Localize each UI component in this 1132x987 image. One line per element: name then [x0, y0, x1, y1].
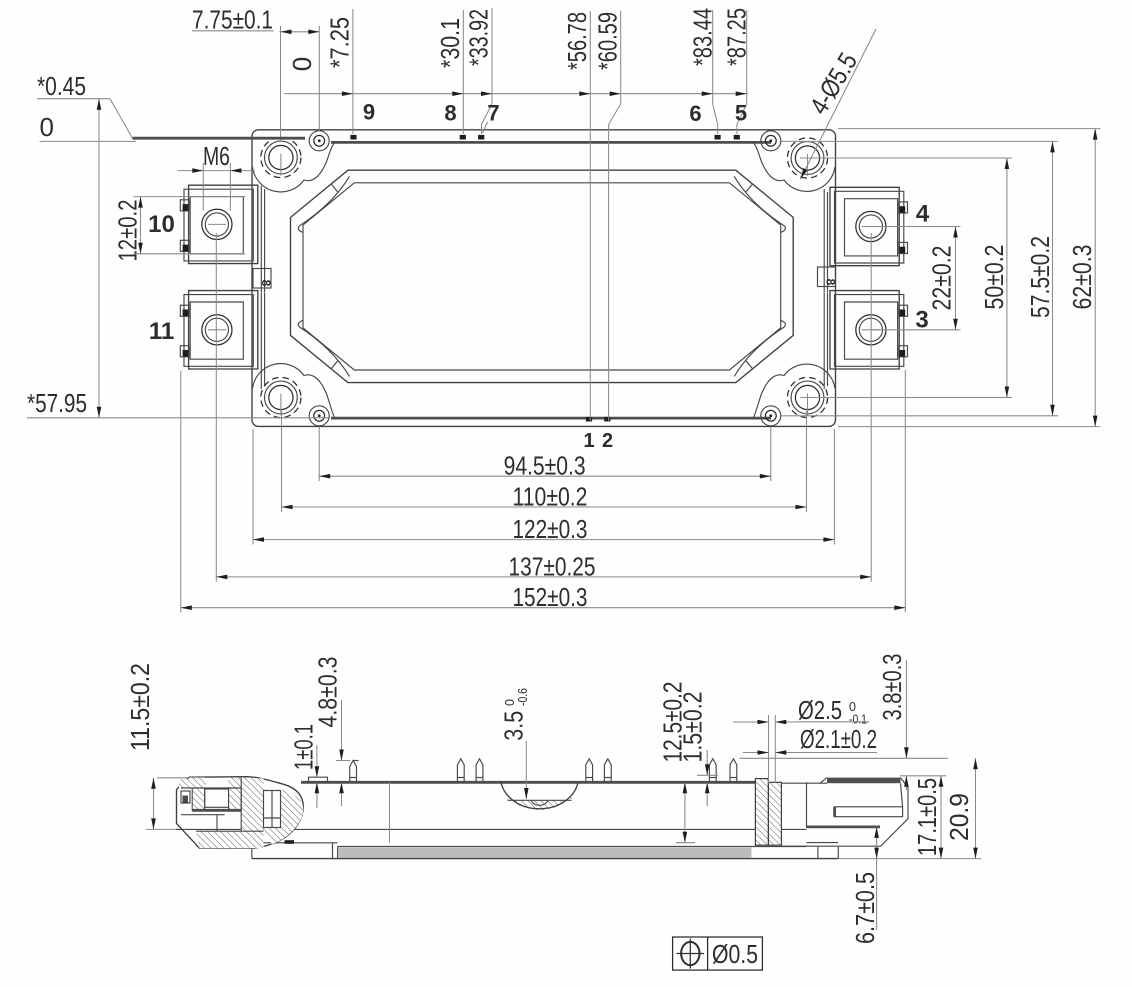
labels 4 3 (right terminals) — [915, 201, 930, 334]
side view: gate notch with hatch — [501, 782, 578, 810]
side view: connector wall with hatch — [755, 779, 781, 846]
svg-text:62±0.3: 62±0.3 — [1067, 245, 1097, 310]
dimension Ø2.5 0/-0.1 (pin diameter) — [733, 695, 869, 783]
side view: top surface line — [301, 781, 762, 784]
lid octagon inner contour — [303, 183, 781, 370]
svg-text:50±0.2: 50±0.2 — [979, 245, 1009, 310]
svg-text:1.5±0.2: 1.5±0.2 — [678, 692, 708, 763]
dimension 152±0.3 — [181, 582, 906, 612]
dimension 17.1±0.5 (housing height) — [900, 776, 946, 859]
svg-text:1±0.1: 1±0.1 — [289, 724, 319, 770]
svg-text:1: 1 — [583, 430, 594, 452]
svg-text:*0.45: *0.45 — [37, 71, 86, 101]
dimension 6.7±0.5 (ledge height) — [850, 827, 880, 944]
extension lines for bottom dimensions — [181, 233, 906, 613]
mounting hole bottom-left (4-Ø5.5) — [261, 377, 301, 417]
pin position ticks on bottom edge (pins 1,2) — [586, 417, 611, 422]
svg-text:8: 8 — [824, 279, 838, 286]
dimension 110±0.2 — [282, 482, 807, 512]
side view: control pin (4.8±0.3) — [350, 761, 357, 783]
svg-text:17.1±0.5: 17.1±0.5 — [912, 778, 942, 856]
svg-text:-0.6: -0.6 — [516, 688, 530, 706]
leader 4-Ø5.5 (mounting holes) — [801, 29, 877, 179]
lid octagon outer contour — [291, 170, 794, 382]
svg-text:Ø2.1±0.2: Ø2.1±0.2 — [800, 724, 877, 754]
ordinate dimension line across top with arrows — [284, 91, 748, 96]
side view: internal vertical line — [389, 782, 391, 842]
dimension 50±0.2 (mounting hole pitch) — [800, 158, 1012, 398]
pin number labels 9 8 7 6 5 — [363, 100, 747, 134]
dimension 122±0.3 — [253, 514, 834, 544]
labels 10 11 (left terminals) — [148, 211, 175, 345]
side view: pin pair B — [586, 759, 593, 783]
svg-text:*57.95: *57.95 — [27, 388, 87, 418]
right index tab — [818, 267, 838, 287]
rivet pin top-left — [309, 131, 329, 151]
left vertical dimension line (0.45 to 57.95) — [97, 99, 102, 418]
corner boss arcs around mounting holes — [253, 143, 836, 418]
ordinate leader *60.59 (pin 2, jogged) — [592, 11, 622, 421]
dimension 22±0.2 (terminal pitch) — [872, 227, 961, 330]
ordinate leader *7.25 (pin 9) — [325, 9, 355, 134]
svg-text:11: 11 — [149, 318, 174, 345]
dimension 57.5±0.2 (rivet pitch) — [781, 141, 1058, 415]
top view: module body outline — [252, 130, 836, 427]
svg-text:4.8±0.3: 4.8±0.3 — [313, 657, 343, 728]
svg-text:M6: M6 — [203, 141, 230, 171]
terminal block 3 (screw M6) — [830, 291, 908, 369]
ordinate leader *87.25 (pin 5, jogged) — [721, 8, 751, 134]
dimension M6 (terminal thread) — [178, 141, 255, 211]
labels 1 2 (bottom pins) — [583, 430, 613, 452]
datum 0 label (rotated) and rivet centerline — [287, 26, 319, 131]
left index tab — [253, 269, 273, 289]
svg-text:4: 4 — [916, 201, 930, 228]
svg-text:6.7±0.5: 6.7±0.5 — [850, 872, 880, 944]
position tolerance feature control frame Ø0.5 — [673, 937, 763, 970]
svg-text:8: 8 — [444, 101, 456, 126]
side view: pin pair C — [709, 759, 716, 783]
side view: module bottom line — [176, 828, 807, 830]
pin position ticks on top edge (pins 9,8,7,6,5) — [350, 135, 740, 140]
side view: pin bump (1±0.1) — [309, 777, 328, 782]
side view: left clamp assembly (section) — [177, 777, 304, 849]
ordinate leader *56.78 (pin 1) — [562, 11, 592, 421]
svg-text:0: 0 — [287, 57, 317, 71]
dimension 137±0.25 — [216, 551, 871, 581]
dimension Ø2.1±0.2 (pin diameter) — [743, 724, 877, 755]
svg-text:2: 2 — [602, 430, 613, 452]
svg-text:*7.25: *7.25 — [325, 17, 355, 68]
dimension *0.45 with leader and datum 0 line — [37, 71, 305, 142]
svg-text:*30.1: *30.1 — [435, 18, 465, 68]
mounting hole bottom-right (4-Ø5.5) — [787, 377, 827, 417]
svg-text:Ø0.5: Ø0.5 — [712, 939, 758, 969]
svg-text:0: 0 — [503, 699, 517, 706]
extension line: hole centerline — [280, 26, 282, 140]
svg-text:0: 0 — [40, 112, 54, 142]
dimension 7.75±0.1 (hole center to rivet datum) — [192, 5, 319, 35]
svg-text:5: 5 — [735, 101, 747, 126]
dimension 20.9 (total height) — [838, 758, 981, 858]
rivet pin bottom-right — [761, 406, 781, 426]
terminal block 10 (screw M6) — [180, 185, 257, 263]
svg-text:*56.78: *56.78 — [562, 12, 592, 70]
rivet pin top-right — [761, 131, 781, 151]
svg-text:8: 8 — [259, 280, 273, 287]
side view: baseplate — [252, 840, 839, 858]
svg-text:7.75±0.1: 7.75±0.1 — [192, 5, 273, 35]
dimension 1.5±0.2 (pin shoulder) — [678, 692, 719, 807]
svg-text:22±0.2: 22±0.2 — [927, 246, 957, 311]
side view: pin pair A — [457, 759, 464, 783]
svg-text:10: 10 — [148, 211, 175, 238]
dimension 3.5 0/-0.6 (notch depth) — [499, 688, 531, 799]
svg-text:11.5±0.2: 11.5±0.2 — [125, 663, 155, 751]
dimension 94.5±0.3 — [319, 450, 771, 480]
svg-text:*60.59: *60.59 — [592, 12, 622, 70]
svg-text:3.5: 3.5 — [499, 711, 529, 741]
rivet pin bottom-left — [309, 406, 329, 426]
dimension 11.5±0.2 (module height) — [125, 663, 190, 829]
side view: right connector housing — [781, 778, 908, 859]
terminal block 4 (screw M6) — [830, 187, 908, 265]
svg-text:57.5±0.2: 57.5±0.2 — [1025, 236, 1055, 318]
svg-text:9: 9 — [363, 100, 375, 125]
svg-text:Ø2.5: Ø2.5 — [798, 695, 842, 725]
dimension 3.8±0.3 (pin above housing) — [739, 654, 948, 791]
dimension 12±0.2 (block recess height) — [113, 197, 246, 262]
lid chamfer corner arc bands — [298, 176, 349, 232]
svg-text:6: 6 — [689, 101, 701, 126]
mounting hole top-right (4-Ø5.5) — [787, 138, 827, 178]
svg-text:12±0.2: 12±0.2 — [113, 200, 143, 262]
svg-text:20.9: 20.9 — [944, 793, 974, 841]
dimension 12.5±0.2 (pin insertion) — [658, 682, 696, 843]
dimension *57.95 line — [27, 388, 329, 418]
ordinate leader *83.44 (pin 6, jogged) — [687, 8, 717, 134]
svg-text:*33.92: *33.92 — [464, 9, 494, 66]
mounting hole top-left (4-Ø5.5) — [261, 137, 301, 177]
dimension 4.8±0.3 (pin height) — [313, 657, 351, 807]
terminal block 11 (screw M6) — [180, 291, 257, 369]
dimension 62±0.3 (body width) — [838, 129, 1101, 427]
svg-text:7: 7 — [487, 101, 499, 126]
dimension 1±0.1 (bump height) — [289, 724, 320, 808]
ordinate leader *30.1 (pin 8) — [435, 10, 465, 134]
ordinate leader *33.92 (pin 7, jogged) — [464, 8, 494, 134]
svg-text:3.8±0.3: 3.8±0.3 — [877, 654, 907, 721]
